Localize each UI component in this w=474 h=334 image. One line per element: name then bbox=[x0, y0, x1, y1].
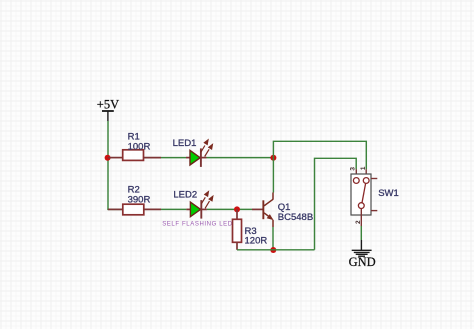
svg-text:120R: 120R bbox=[245, 235, 268, 246]
svg-text:3: 3 bbox=[349, 167, 356, 171]
switch SW1 bbox=[349, 166, 398, 226]
node junction at R1 row bbox=[105, 155, 111, 161]
wire Q1 emitter down bbox=[272, 227, 274, 250]
wire +5V rail down bbox=[107, 121, 109, 209]
node base junction R3 bbox=[234, 206, 240, 212]
led LED2 bbox=[162, 189, 233, 227]
svg-text:GND: GND bbox=[349, 255, 376, 269]
resistor R2 bbox=[108, 184, 161, 214]
wire LED2 cathode to base node bbox=[207, 208, 252, 210]
LED1 emission arrows bbox=[201, 140, 213, 157]
svg-text:2: 2 bbox=[355, 220, 362, 224]
wire LED1 cathode to collector node bbox=[207, 157, 274, 159]
transistor Q1 bbox=[252, 193, 313, 228]
svg-text:BC548B: BC548B bbox=[278, 212, 313, 223]
resistor R1 bbox=[108, 132, 161, 161]
wire R1 to LED1 bbox=[161, 157, 186, 159]
svg-text:390R: 390R bbox=[128, 194, 151, 205]
wire R2 rail corner bbox=[108, 208, 123, 211]
ground bbox=[349, 240, 376, 269]
wire switch pin 2 to ground bbox=[360, 226, 362, 240]
led LED1 bbox=[173, 138, 213, 167]
wire bottom rail R3 to riser bbox=[237, 249, 315, 251]
power +5V bbox=[97, 97, 119, 121]
svg-text:SW1: SW1 bbox=[378, 188, 399, 199]
svg-text:LED1: LED1 bbox=[173, 138, 197, 149]
svg-text:1: 1 bbox=[360, 166, 367, 170]
wire emitter riser to switch pin 3 bbox=[315, 158, 357, 250]
node emitter junction bbox=[270, 247, 276, 253]
node collector junction bbox=[270, 155, 276, 161]
wire R2 to LED2 bbox=[161, 208, 186, 210]
wire collector node up and right to switch pin 1 bbox=[273, 141, 366, 169]
LED2 emission arrows bbox=[201, 192, 213, 209]
svg-text:100R: 100R bbox=[128, 141, 151, 152]
svg-text:LED2: LED2 bbox=[173, 189, 197, 200]
svg-text:SELF FLASHING LED: SELF FLASHING LED bbox=[162, 221, 233, 227]
svg-text:+5V: +5V bbox=[97, 97, 119, 111]
resistor R3 bbox=[233, 209, 268, 249]
wire collector node down to Q1 collector bbox=[272, 158, 274, 193]
